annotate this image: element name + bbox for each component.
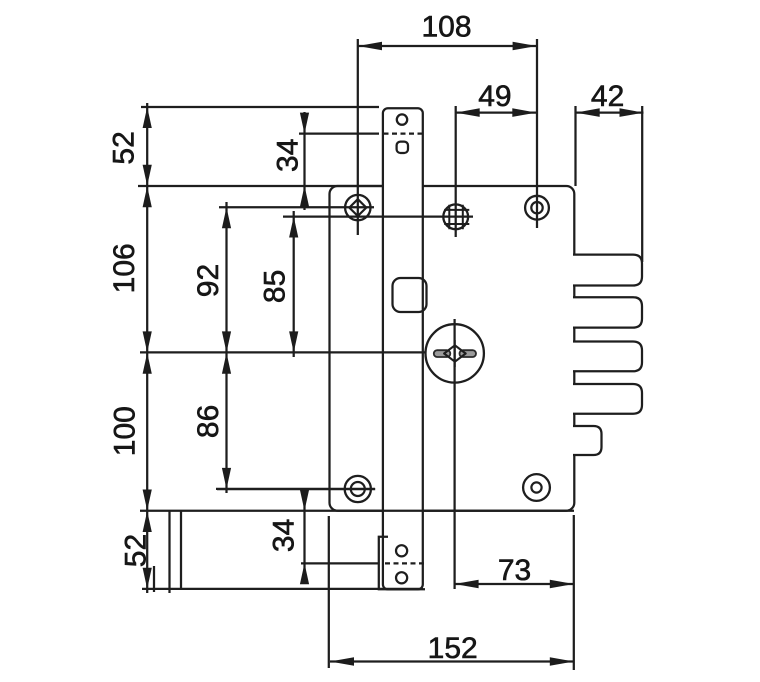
svg-text:34: 34 — [268, 519, 301, 552]
svg-text:108: 108 — [421, 11, 471, 44]
svg-text:52: 52 — [120, 534, 153, 567]
svg-text:152: 152 — [428, 632, 478, 665]
svg-text:85: 85 — [259, 270, 292, 303]
svg-text:73: 73 — [498, 554, 531, 587]
svg-text:52: 52 — [108, 131, 141, 164]
svg-text:100: 100 — [108, 406, 141, 456]
svg-text:49: 49 — [478, 80, 511, 113]
svg-text:86: 86 — [192, 405, 225, 438]
svg-text:106: 106 — [108, 243, 141, 293]
svg-text:42: 42 — [591, 80, 624, 113]
svg-text:92: 92 — [192, 264, 225, 297]
svg-text:34: 34 — [271, 139, 304, 172]
